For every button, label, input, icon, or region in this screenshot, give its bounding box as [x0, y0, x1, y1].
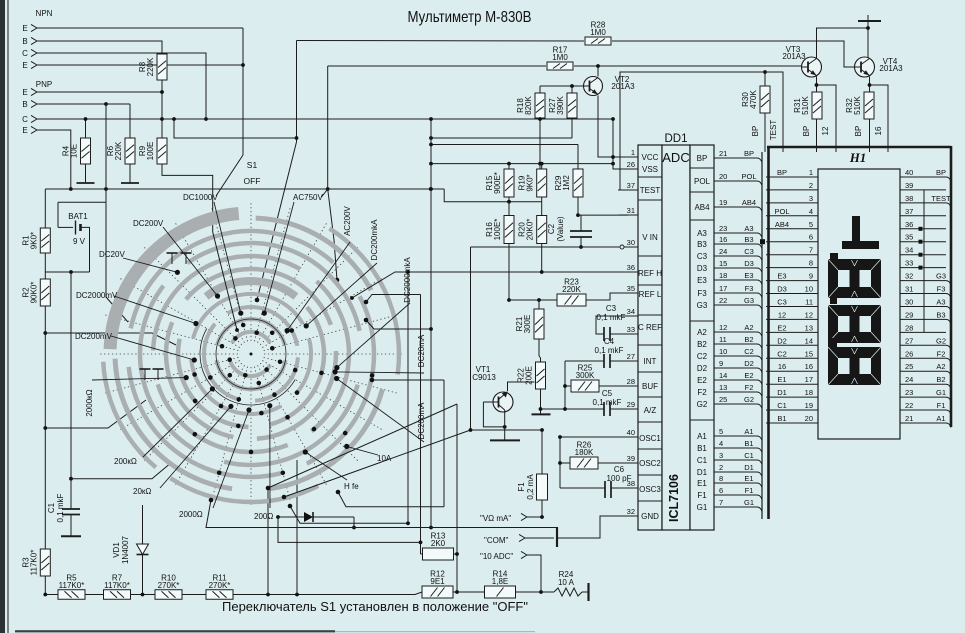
jack VOmA [480, 513, 544, 523]
H1 left bus contact dot pin6 [760, 239, 765, 244]
svg-text:B: B [22, 37, 27, 46]
svg-text:2K0: 2K0 [431, 539, 446, 548]
socket pin B (PNP) [22, 100, 37, 109]
wire VT1 base loop to collector [483, 402, 504, 427]
svg-text:D3: D3 [744, 259, 754, 268]
svg-text:18: 18 [719, 271, 727, 280]
svg-text:G1: G1 [936, 388, 946, 397]
wire R13 right [453, 553, 457, 555]
IC DD1 right box [690, 145, 714, 530]
DD1 left box dividers [638, 177, 662, 501]
wire INT line [565, 360, 604, 362]
DD1 pin30 circle [620, 245, 624, 249]
svg-text:C5: C5 [602, 389, 613, 398]
wire R1 bottom [44, 253, 46, 279]
svg-text:POL: POL [694, 177, 711, 186]
svg-text:1: 1 [809, 168, 813, 177]
svg-text:9: 9 [809, 272, 813, 281]
svg-text:16: 16 [805, 362, 813, 371]
svg-text:200Ω: 200Ω [254, 512, 273, 521]
display digit 8 (third) [828, 347, 881, 385]
display decimal point 3 [828, 338, 837, 347]
svg-text:F1: F1 [937, 401, 946, 410]
S1 dial rays [100, 203, 402, 505]
svg-text:100E*: 100E* [493, 219, 502, 241]
DD1 segment pin C1 (3) [697, 451, 762, 465]
svg-text:12: 12 [719, 323, 727, 332]
display decimal point 1 [830, 253, 838, 261]
svg-text:DC20V: DC20V [99, 250, 125, 259]
svg-text:31: 31 [627, 206, 635, 215]
wire pin30 line [471, 246, 629, 248]
svg-text:100 pF: 100 pF [607, 474, 632, 483]
svg-text:18: 18 [805, 388, 813, 397]
bottom cropped text band [15, 630, 335, 632]
wire bottom rail [45, 594, 58, 596]
capacitor C3 [597, 304, 626, 341]
svg-text:8: 8 [719, 474, 723, 483]
capacitor C2 [547, 216, 592, 242]
wire R26 line left [560, 462, 570, 464]
svg-text:AC200V: AC200V [343, 205, 352, 235]
wire OSC1 line [560, 437, 628, 488]
resistor R20 [518, 216, 547, 244]
DD1 segment pin A2 (12) [697, 323, 762, 337]
DD1 left pin names [638, 153, 662, 521]
wire C-bus vertical [564, 361, 566, 409]
svg-text:C3: C3 [744, 247, 754, 256]
wire rail R12-R14 [453, 591, 485, 593]
svg-text:29: 29 [905, 310, 913, 319]
svg-text:B3: B3 [936, 310, 945, 319]
wire dial drop x=268 [267, 488, 269, 595]
terminal bar top right [858, 15, 881, 21]
resistor R17 [547, 46, 573, 71]
svg-text:E2: E2 [777, 323, 786, 332]
svg-text:B2: B2 [936, 375, 945, 384]
dial label 200Ω [254, 403, 273, 521]
svg-text:POL: POL [774, 207, 789, 216]
wire V1 bottom line [290, 506, 408, 523]
svg-text:33: 33 [905, 259, 913, 268]
dial label 20кΩ [133, 404, 233, 496]
wire VSS corner down to pin 26 [613, 119, 628, 169]
wire V4 top line [372, 379, 444, 381]
svg-text:37: 37 [627, 181, 635, 190]
wire A/Z line from R22 [541, 408, 605, 410]
display H1 inner box [818, 169, 900, 439]
svg-text:DC200mkA: DC200mkA [370, 219, 379, 261]
dial label DC2000mV [76, 291, 198, 326]
wire common drop to y=202 line [444, 189, 542, 202]
svg-text:C1: C1 [744, 451, 754, 460]
wire DD1-H1 bus [761, 152, 763, 519]
svg-text:34: 34 [905, 246, 913, 255]
svg-text:C2: C2 [777, 349, 787, 358]
svg-text:H fe: H fe [344, 482, 359, 491]
wire R13 left [421, 553, 424, 555]
wire VT3 collector to top [817, 28, 869, 59]
svg-text:E: E [22, 61, 27, 70]
svg-text:G1: G1 [697, 503, 708, 512]
resistor R21 [515, 309, 544, 339]
S1 dial gray contact arcs [103, 214, 399, 503]
ground [121, 178, 139, 183]
svg-text:180K: 180K [575, 448, 594, 457]
svg-text:7: 7 [809, 246, 813, 255]
dial label DC200mkA [304, 219, 379, 329]
wire pin34 to C3 [596, 316, 628, 334]
dial label DC200mA [334, 376, 426, 442]
resistor R16 [485, 216, 514, 244]
svg-text:BUF: BUF [642, 382, 658, 391]
svg-text:DC20mA: DC20mA [417, 334, 426, 367]
dial label DC20V [99, 250, 180, 275]
resistor R32 [845, 92, 874, 119]
wire BUF line left [565, 385, 571, 387]
wire NPN-E top [37, 27, 243, 29]
svg-text:39: 39 [627, 454, 635, 463]
svg-text:10E: 10E [70, 144, 79, 158]
svg-text:12: 12 [805, 310, 813, 319]
wire C2 bottom to pin30 line [580, 237, 582, 247]
svg-text:A2: A2 [744, 323, 753, 332]
svg-text:DD1: DD1 [664, 133, 687, 145]
resistor R27 [548, 93, 577, 118]
svg-text:510K: 510K [801, 95, 810, 114]
svg-text:C3: C3 [606, 304, 617, 313]
svg-text:C2: C2 [744, 347, 754, 356]
svg-text:20: 20 [805, 414, 813, 423]
svg-text:40: 40 [627, 428, 635, 437]
wire channel V1 x=408 [407, 272, 409, 523]
wire common line y=189 [45, 188, 444, 190]
svg-text:270K*: 270K* [209, 581, 231, 590]
wire R4 bottom [85, 164, 87, 178]
svg-text:11: 11 [805, 298, 813, 307]
resistor R22 [517, 362, 546, 389]
svg-text:10 A: 10 A [558, 578, 575, 587]
svg-text:2: 2 [809, 181, 813, 190]
svg-text:INT: INT [644, 357, 657, 366]
resistor R19 [518, 169, 547, 197]
wire R25 to pin28 [599, 385, 628, 387]
svg-text:VCC: VCC [642, 153, 659, 162]
socket pin C (PNP) [22, 115, 37, 124]
wire VT4 collector [867, 21, 869, 59]
svg-text:35: 35 [627, 284, 635, 293]
wire R8 top [161, 41, 163, 54]
wire PNP-B row [37, 103, 130, 105]
diode in dial (range) [278, 512, 354, 522]
svg-text:AB4: AB4 [742, 198, 756, 207]
wire REF L line left [509, 299, 557, 301]
svg-text:12: 12 [778, 310, 786, 319]
svg-text:G3: G3 [697, 301, 708, 310]
svg-text:ICL7106: ICL7106 [667, 474, 681, 522]
wire V4 bottom line [338, 492, 444, 507]
svg-text:117K0*: 117K0* [59, 581, 85, 590]
svg-text:E3: E3 [744, 271, 753, 280]
svg-text:4: 4 [719, 439, 723, 448]
wire C1 bottom [70, 515, 72, 537]
wire pin31 line [578, 214, 628, 216]
svg-text:20кΩ: 20кΩ [133, 487, 151, 496]
wire VT2 base feed [540, 85, 584, 87]
svg-text:B3: B3 [744, 235, 753, 244]
wire C6 line [560, 487, 605, 489]
resistor R31 [793, 92, 822, 119]
resistor R10 [155, 573, 182, 599]
page border line [7, 0, 9, 633]
svg-text:VD1: VD1 [112, 542, 121, 558]
display digit 8 (second) [828, 305, 881, 343]
wire R21 top [538, 300, 540, 309]
dial label 2000Ω [179, 407, 252, 519]
svg-text:220K: 220K [146, 57, 155, 76]
DD1 segment pin D1 (2) [697, 463, 762, 477]
svg-text:32: 32 [905, 272, 913, 281]
svg-text:G1: G1 [744, 498, 754, 507]
svg-text:21: 21 [905, 414, 913, 423]
dial label 2000кΩ [85, 375, 189, 417]
wire NPN-E row [37, 64, 243, 66]
svg-text:ADC: ADC [662, 150, 689, 165]
svg-text:1M0: 1M0 [552, 53, 568, 62]
svg-text:10: 10 [719, 347, 727, 356]
capacitor C1 [47, 493, 80, 522]
svg-text:Мультиметр М-830В: Мультиметр М-830В [408, 9, 532, 26]
capacitor C4 [595, 337, 624, 368]
svg-text:40: 40 [905, 168, 913, 177]
terminal bar under VT1 [490, 439, 520, 441]
svg-text:36: 36 [905, 220, 913, 229]
svg-text:B1: B1 [777, 414, 786, 423]
resistor R14 [485, 570, 516, 599]
svg-text:A1: A1 [697, 432, 707, 441]
svg-text:TEST: TEST [769, 120, 778, 141]
wire R8 bottom through rows [161, 80, 163, 138]
wire E tie vertical [242, 28, 244, 155]
svg-text:20K0*: 20K0* [526, 219, 535, 241]
svg-text:OSC1: OSC1 [639, 434, 661, 443]
svg-text:13: 13 [719, 383, 727, 392]
resistor R8 [138, 54, 167, 80]
svg-text:C3: C3 [777, 298, 787, 307]
svg-text:C3: C3 [697, 252, 708, 261]
wire dial riser x=296.5 [296, 41, 298, 143]
wire R29 top stub [577, 145, 579, 170]
wire R19 top stub [541, 164, 543, 169]
svg-text:24: 24 [719, 247, 727, 256]
svg-text:"10 ADC": "10 ADC" [480, 552, 513, 561]
svg-text:28: 28 [905, 323, 913, 332]
svg-text:AB4: AB4 [775, 220, 789, 229]
dial label DC20mA [333, 334, 427, 374]
wire AC750V connect slant [322, 189, 328, 197]
svg-text:29: 29 [627, 400, 635, 409]
svg-text:C2: C2 [547, 223, 556, 234]
svg-text:24: 24 [905, 375, 913, 384]
svg-text:22: 22 [719, 296, 727, 305]
svg-text:35: 35 [905, 233, 913, 242]
svg-text:26: 26 [627, 160, 635, 169]
svg-text:21: 21 [719, 149, 727, 158]
svg-text:AC750V: AC750V [293, 193, 323, 202]
svg-text:B3: B3 [697, 240, 707, 249]
svg-text:27: 27 [627, 352, 635, 361]
wire R18 top [539, 86, 541, 93]
DD1 segment pin D3 (15) [697, 259, 762, 273]
resistor R5 [58, 573, 85, 599]
wire long 527.5 line [206, 500, 556, 528]
wire x470 vertical (V IN to F1) [470, 247, 472, 430]
wire VSS row y=119 [162, 118, 613, 120]
DD1 segment pin POL (20) [694, 172, 762, 186]
svg-text:15: 15 [805, 349, 813, 358]
H1 right pin net labels [931, 168, 951, 428]
svg-text:5: 5 [719, 427, 723, 436]
wire R24 to terminal [582, 591, 588, 593]
wire R9 bottom route into dial [162, 164, 213, 232]
svg-text:DC200V: DC200V [133, 219, 164, 228]
resistor R30 [741, 86, 770, 113]
wire net-12 branch [817, 85, 837, 152]
svg-text:117K0*: 117K0* [29, 550, 38, 576]
svg-text:5: 5 [809, 220, 813, 229]
svg-text:D2: D2 [744, 359, 754, 368]
resistor R13 [423, 532, 454, 561]
svg-text:H1: H1 [849, 150, 867, 165]
resistor R4 [62, 138, 91, 164]
svg-text:B1: B1 [744, 439, 753, 448]
DD1 segment pin BP (21) [697, 149, 762, 163]
wire dial drop x=297 [296, 460, 298, 595]
wire R30 top to TEST line [764, 72, 766, 86]
wire L1 from dial to R28 [297, 40, 585, 43]
svg-text:E2: E2 [697, 376, 707, 385]
S1 inner black circle [216, 319, 286, 389]
svg-text:10A: 10A [377, 454, 392, 463]
wire R27 top [571, 86, 573, 93]
wire y=479 to dial [71, 462, 172, 479]
svg-text:A2: A2 [936, 362, 945, 371]
svg-text:A2: A2 [697, 328, 707, 337]
socket pin E (PNP) [22, 88, 37, 97]
svg-text:9K0*: 9K0* [526, 174, 535, 191]
wire VSS line y=163.6 [431, 163, 613, 165]
resistor R12 [422, 570, 453, 599]
resistor R1 [21, 228, 50, 253]
svg-text:300K: 300K [576, 371, 595, 380]
wire VT3 emitter to R31 [816, 77, 818, 93]
wire V2 542 line [278, 517, 421, 542]
resistor R24 (zigzag) [554, 570, 582, 596]
wire PNP-E row to R8 [37, 91, 162, 93]
svg-text:F1: F1 [517, 482, 526, 492]
wire V2 top line [366, 295, 421, 303]
svg-text:(Value): (Value) [556, 216, 565, 242]
wire R2 bottom chain to R3 [44, 306, 46, 549]
transistor VT4 [855, 57, 904, 77]
wire R32 bottom BP into H1 [869, 119, 871, 152]
svg-text:C6: C6 [614, 465, 625, 474]
svg-text:DC2000mV: DC2000mV [76, 291, 118, 300]
DD1 segment pin B2 (11) [697, 335, 762, 349]
svg-text:AB4: AB4 [694, 203, 710, 212]
wire battery minus lead [58, 226, 73, 228]
capacitor C5 [593, 389, 622, 416]
svg-text:A3: A3 [744, 224, 753, 233]
svg-text:3: 3 [719, 451, 723, 460]
wire PNP-C row (VSS) [37, 118, 162, 120]
svg-text:D1: D1 [777, 388, 787, 397]
svg-text:0,1 mkF: 0,1 mkF [56, 493, 65, 522]
svg-text:39: 39 [905, 181, 913, 190]
svg-text:E2: E2 [744, 371, 753, 380]
wire C-row drop to y138 [174, 119, 297, 138]
svg-text:E: E [22, 126, 27, 135]
svg-text:C: C [22, 49, 28, 58]
svg-text:F1: F1 [697, 491, 707, 500]
DD1 segment pin G1 (7) [697, 498, 762, 512]
svg-text:D1: D1 [744, 463, 754, 472]
wire channel V2 x=420.5 [420, 295, 422, 555]
svg-text:16: 16 [719, 235, 727, 244]
transistor VT1 [472, 365, 513, 412]
svg-text:NPN: NPN [36, 9, 53, 18]
wire R26 to pin39 [598, 462, 628, 464]
svg-text:117K0*: 117K0* [104, 581, 130, 590]
svg-text:E3: E3 [777, 272, 786, 281]
page left border [0, 0, 5, 633]
resistor R3 [21, 549, 50, 576]
svg-text:D3: D3 [697, 264, 708, 273]
wire battery col down to dial [106, 202, 128, 322]
DD1 segment pin C3 (24) [697, 247, 762, 261]
DD1 segment pin F1 (6) [697, 486, 762, 500]
wire R6 bottom [129, 164, 131, 178]
wire battery plus lead [81, 227, 90, 272]
DD1 segment pin D2 (9) [697, 359, 762, 373]
resistor R9 [138, 138, 167, 164]
dial label AC200V [285, 205, 353, 333]
wire rail seg [182, 594, 206, 596]
resistor R25 [571, 364, 599, 393]
resistor R29 [554, 169, 583, 197]
svg-text:17: 17 [805, 375, 813, 384]
DD1 segment pin AB4 (19) [694, 198, 762, 212]
svg-text:30: 30 [627, 238, 635, 247]
wire R20 bottom to REF-H line [541, 244, 543, 273]
wire R29 bottom to pin31 node [577, 197, 579, 215]
DD1 segment pin E2 (14) [697, 371, 762, 385]
svg-text:820K: 820K [524, 95, 533, 114]
svg-text:"VΩ mA": "VΩ mA" [480, 514, 511, 523]
wire R19-R20 join [541, 197, 543, 216]
resistor R6 [106, 138, 135, 164]
wire chord to F1 line [284, 430, 471, 497]
svg-text:B: B [22, 100, 27, 109]
socket pin B (NPN) [22, 37, 37, 46]
wire C5 to pin29 [610, 408, 628, 410]
svg-text:BP: BP [854, 126, 863, 137]
wire C6 to pin38 [611, 487, 628, 489]
wire NPN-B row to R8 [37, 41, 162, 54]
wire PNP-E2 row down [37, 130, 71, 189]
svg-text:11: 11 [719, 335, 727, 344]
S1 contact dots [192, 323, 374, 475]
